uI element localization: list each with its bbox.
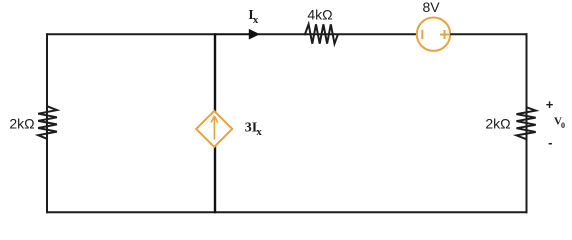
resistor R1 2k left body xyxy=(38,106,57,139)
U1 plus terminal xyxy=(440,30,449,39)
I1 arrow head xyxy=(211,116,218,123)
label Vo xyxy=(554,115,565,130)
label Ix xyxy=(248,8,259,26)
svg-text:4kΩ: 4kΩ xyxy=(307,7,332,23)
wire middle bottom (dependent source to bottom wire) xyxy=(214,146,216,213)
wire left side xyxy=(46,33,48,213)
wire top-middle segment with Ix arrow xyxy=(215,33,251,35)
label 3Ix xyxy=(245,121,263,138)
resistor R3 2k right body xyxy=(517,107,536,139)
wire middle top (node A to dependent source) xyxy=(214,33,216,112)
svg-text:8V: 8V xyxy=(422,0,440,15)
svg-text:2kΩ: 2kΩ xyxy=(9,116,34,132)
svg-text:x: x xyxy=(256,126,262,138)
U1 minus terminal bar xyxy=(421,30,423,39)
wire right side xyxy=(526,33,528,213)
wire source-to-top-right-corner xyxy=(450,33,527,35)
svg-text:0: 0 xyxy=(561,121,565,130)
resistor R2 4k horizontal body xyxy=(304,24,339,43)
arrow Ix head xyxy=(249,29,260,40)
wire bottom xyxy=(46,211,528,213)
wire arrow-to-resistor xyxy=(258,33,306,35)
dependent current source I1 diamond xyxy=(196,111,232,147)
wire top-left segment xyxy=(47,33,215,35)
I1 arrow shaft xyxy=(213,117,215,140)
voltage source U1 8V circle xyxy=(417,18,450,51)
svg-text:-: - xyxy=(548,135,552,150)
wire resistor-to-source xyxy=(338,33,417,35)
svg-text:x: x xyxy=(253,14,259,26)
svg-text:2kΩ: 2kΩ xyxy=(485,116,510,132)
svg-text:+: + xyxy=(546,97,554,112)
